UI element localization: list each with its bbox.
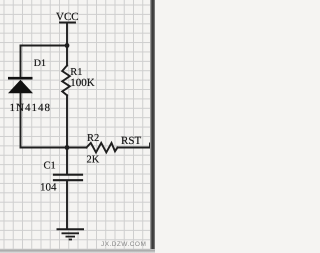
wire node A to R1 top [66, 46, 68, 66]
wire R1 bottom to node B [66, 95, 68, 147]
svg-text:1N4148: 1N4148 [10, 102, 51, 114]
svg-text:100K: 100K [70, 77, 95, 89]
diode D1 triangle [8, 80, 33, 93]
svg-text:RST: RST [121, 135, 141, 147]
wire node B to R2 [67, 147, 87, 149]
resistor R2 zigzag [87, 143, 118, 153]
wire diode branch vertical top [20, 46, 22, 79]
svg-text:D1: D1 [34, 58, 46, 69]
resistor R1 zigzag [62, 66, 70, 96]
svg-text:104: 104 [40, 182, 57, 194]
svg-text:VCC: VCC [56, 11, 79, 23]
capacitor C1 top plate [54, 174, 82, 176]
capacitor C1 bottom plate [54, 179, 82, 181]
scan right edge [150, 0, 155, 253]
power VCC terminal bar [60, 22, 75, 24]
scan bottom edge [0, 249, 155, 253]
ground [57, 229, 85, 239]
wire VCC to node A [66, 23, 68, 46]
svg-text:R2: R2 [87, 133, 99, 144]
watermark [101, 241, 155, 249]
svg-text:2K: 2K [87, 155, 100, 166]
wire corner to node B (horizontal) [21, 147, 68, 149]
node A junction dot [65, 43, 70, 48]
wire node B to C1 top [66, 148, 68, 175]
node B junction dot [65, 145, 70, 150]
wire diode anode to corner [20, 94, 22, 148]
wire node A to diode branch (horizontal) [21, 45, 68, 47]
wire C1 bottom to ground [66, 181, 68, 229]
wire R2 to RST port [118, 144, 151, 148]
diode D1 cathode bar [8, 77, 33, 80]
svg-text:C1: C1 [44, 161, 56, 172]
